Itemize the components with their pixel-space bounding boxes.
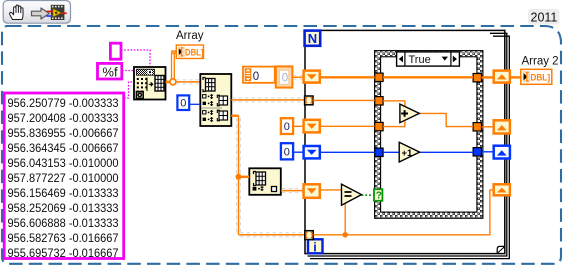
wire: %f to node bbox=[122, 70, 133, 72]
case tunnel left row4 (blue) bbox=[375, 148, 383, 156]
case tunnel right row1 (orange) bbox=[473, 74, 481, 82]
increment +1 node bbox=[399, 142, 419, 162]
right of case to SR2 bbox=[482, 126, 494, 128]
svg-text:956.156469 -0.013333: 956.156469 -0.013333 bbox=[8, 188, 119, 200]
svg-text:DBL]: DBL] bbox=[530, 72, 550, 83]
svg-text:956.582763 -0.016667: 956.582763 -0.016667 bbox=[8, 233, 119, 245]
wire: junction up to Array indicator (vertical array wire) bbox=[171, 52, 176, 80]
2011 year label bbox=[528, 9, 560, 25]
svg-text:i: i bbox=[313, 240, 316, 254]
Array 2 indicator [DBL] bbox=[521, 69, 552, 84]
case selector label bbox=[397, 52, 460, 66]
left shift register 1 (orange, down) bbox=[304, 71, 320, 83]
row 3 wire (SR2 to case) bbox=[320, 125, 375, 127]
left shift register 3 (orange, down) bbox=[304, 184, 320, 198]
Index Array node (2 outputs) bbox=[200, 74, 231, 126]
numeric constant 0 (orange) bbox=[281, 118, 293, 134]
svg-text:True: True bbox=[409, 54, 431, 66]
svg-text:2011: 2011 bbox=[531, 10, 558, 24]
wire: 0 to Index Array bbox=[189, 103, 200, 105]
svg-text:+1: +1 bbox=[402, 148, 414, 159]
case tunnel left row1 (orange) bbox=[375, 73, 383, 81]
case selector terminal [?] bbox=[374, 189, 382, 202]
toolbar hand (pan) icon bbox=[10, 5, 23, 20]
wire: array down-branch (vertical) then to bottom tunnel bbox=[231, 116, 304, 237]
wire: branch to Index Array 2 bbox=[239, 176, 250, 178]
inside: to add top input bbox=[383, 101, 405, 107]
svg-text:N: N bbox=[308, 31, 317, 46]
right shift register blue (up) bbox=[494, 146, 510, 159]
svg-text:Array: Array bbox=[176, 30, 204, 42]
wire: equals out to case selector (green dotted boolean) bbox=[362, 194, 375, 196]
svg-text:955.836955 -0.006667: 955.836955 -0.006667 bbox=[8, 128, 119, 140]
auto-index tunnel [] bottom bbox=[305, 231, 313, 240]
auto-index tunnel [] top bbox=[305, 96, 313, 105]
i iteration terminal bbox=[308, 239, 323, 254]
add node bbox=[400, 104, 419, 123]
row 2 wire ([] tunnel to case) bbox=[313, 99, 375, 101]
svg-text:957.877227 -0.010000: 957.877227 -0.010000 bbox=[8, 173, 119, 185]
wire: blue SR to case bbox=[320, 151, 375, 153]
svg-text:DBL]: DBL] bbox=[185, 47, 204, 58]
wire: SR3 to equals node bbox=[320, 189, 342, 191]
wire: [0] to left shift register 1 bbox=[292, 75, 303, 79]
svg-text:0: 0 bbox=[253, 71, 259, 83]
equals node bbox=[342, 184, 362, 205]
left shift register blue (down) bbox=[304, 146, 320, 158]
numeric constant 0 (blue, index input) bbox=[177, 95, 189, 110]
toolbar arrow icon bbox=[32, 8, 50, 19]
empty string constant bbox=[110, 43, 121, 59]
wire: blue tunnel to right blue SR bbox=[482, 151, 494, 153]
svg-text:956.364345 -0.006667: 956.364345 -0.006667 bbox=[8, 143, 119, 155]
svg-text:0: 0 bbox=[282, 73, 288, 85]
svg-text:Array 2: Array 2 bbox=[522, 56, 559, 68]
wire: node out to junction ring (orange array) bbox=[166, 81, 171, 84]
wire: blue tunnel to +1 node bbox=[383, 151, 400, 153]
junction dot on vertical array wire bbox=[236, 174, 242, 180]
CASE STRUCTURE checkered border bbox=[375, 51, 483, 219]
svg-text:957.200408 -0.003333: 957.200408 -0.003333 bbox=[8, 113, 119, 125]
wire: Index Array out1 to [] tunnel (array) bbox=[231, 98, 304, 102]
bottom wire through loop bbox=[313, 190, 494, 235]
svg-text:0: 0 bbox=[284, 147, 290, 159]
svg-text:955.695732 -0.016667: 955.695732 -0.016667 bbox=[8, 248, 119, 260]
row 1 wire (init array through case) bbox=[320, 76, 375, 78]
numeric constant 0 (blue) bbox=[281, 143, 293, 159]
svg-text:956.606888 -0.013333: 956.606888 -0.013333 bbox=[8, 218, 119, 230]
array constant [0] (initializer) bbox=[243, 66, 292, 87]
toolbar VI-snippet icon bbox=[47, 5, 67, 20]
string constant (11 rows of data) bbox=[4, 93, 124, 260]
right shift register 2 (orange, up) bbox=[494, 120, 510, 133]
case tunnel right row4 (blue) bbox=[473, 148, 481, 156]
inside: to add bottom input bbox=[383, 120, 405, 127]
svg-text:956.043153 -0.010000: 956.043153 -0.010000 bbox=[8, 158, 119, 170]
wire: junction right to Index Array (array wire with gray dashes) bbox=[176, 80, 200, 84]
Array indicator [DBL] bbox=[176, 45, 203, 59]
left shift register 2 (orange, down) bbox=[304, 120, 320, 133]
toolbar panel bbox=[3, 1, 70, 24]
svg-text:958.252069 -0.013333: 958.252069 -0.013333 bbox=[8, 203, 119, 215]
%f format string constant bbox=[98, 63, 122, 79]
Spreadsheet String To Array node bbox=[134, 67, 166, 100]
svg-text:0: 0 bbox=[180, 98, 186, 110]
wire: +1 out to right blue tunnel bbox=[419, 151, 473, 153]
Index Array node 2 (single) bbox=[249, 168, 280, 195]
for loop resize corner bbox=[497, 246, 504, 253]
svg-text:0: 0 bbox=[284, 121, 290, 133]
case tunnel left row3 (orange) bbox=[375, 122, 383, 130]
case tunnel right row3 (orange) bbox=[473, 123, 481, 131]
junction ring bbox=[170, 79, 176, 85]
wire: big string to node bbox=[124, 82, 133, 98]
right shift register 1 (orange, up) bbox=[494, 71, 510, 83]
wire: Index Array 2 out to left shift register 3 bbox=[281, 189, 304, 193]
case tunnel left row2 (orange) bbox=[375, 97, 383, 105]
right shift register 3 (orange, up) bbox=[494, 184, 510, 195]
wire: empty string to node (pink dotted) bbox=[121, 50, 150, 66]
svg-text:%f: %f bbox=[102, 64, 118, 79]
N count terminal bbox=[305, 31, 321, 47]
svg-text:?: ? bbox=[376, 191, 382, 202]
svg-text:956.250779 -0.003333: 956.250779 -0.003333 bbox=[8, 98, 119, 110]
FOR LOOP stacked frames bbox=[305, 30, 509, 258]
add output wire bbox=[419, 113, 473, 126]
